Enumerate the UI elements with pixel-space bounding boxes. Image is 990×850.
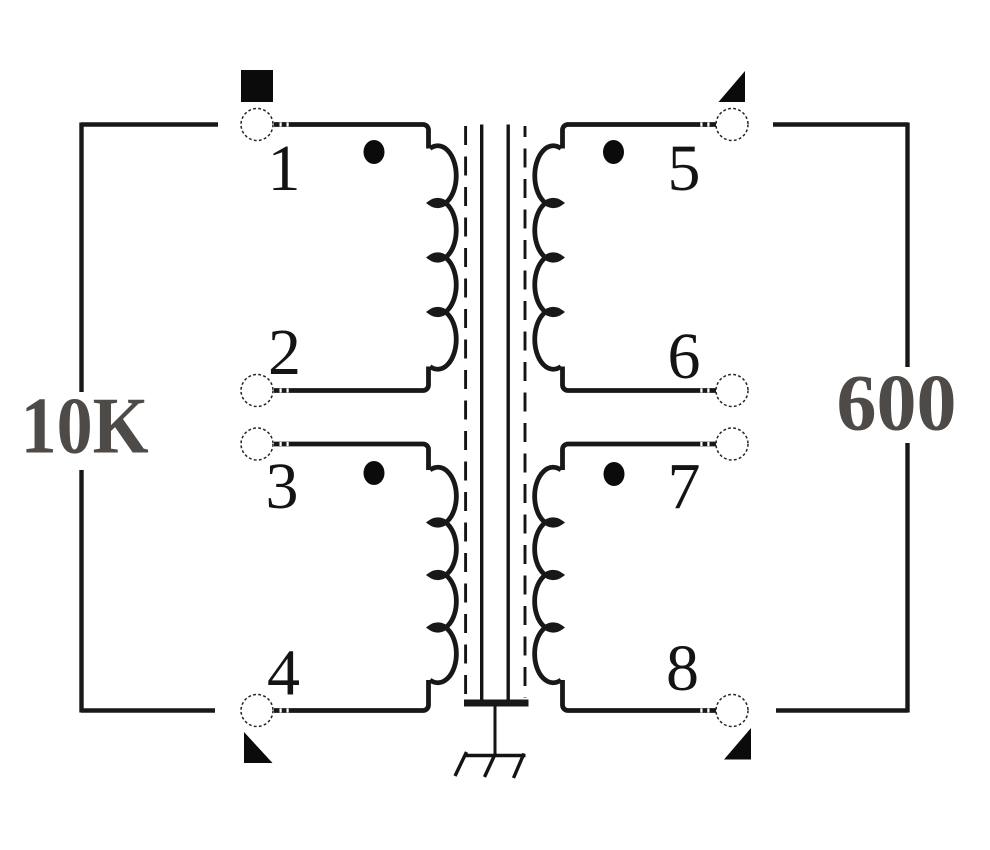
svg-text:1: 1 xyxy=(268,132,301,205)
marker triangle at pin 4 xyxy=(244,732,273,763)
phase dot winding P3-P4 xyxy=(364,461,385,485)
pin 5 terminal circle xyxy=(716,109,748,141)
svg-text:8: 8 xyxy=(666,632,699,705)
wire: right loop vertical upper segment xyxy=(905,123,909,368)
ground hatch stroke 1 xyxy=(455,752,467,776)
phase dot winding P5-P6 xyxy=(603,140,624,164)
ground bar xyxy=(465,754,526,757)
phase dot winding P1-P2 xyxy=(364,140,385,164)
svg-text:600: 600 xyxy=(837,360,957,448)
svg-text:10K: 10K xyxy=(21,382,149,470)
svg-text:6: 6 xyxy=(668,320,701,393)
marker square at pin 1 xyxy=(241,70,273,102)
wire break ticks at pin 4 xyxy=(280,708,282,712)
pin 4 terminal circle xyxy=(241,695,273,727)
svg-text:3: 3 xyxy=(266,450,299,523)
wire: right loop top horizontal xyxy=(773,122,908,127)
winding P3-P4 (primary B) xyxy=(274,444,456,711)
pin 8 terminal circle xyxy=(716,695,748,727)
wire break ticks at pin 1 xyxy=(280,122,282,126)
wire break ticks at pin 8 xyxy=(707,708,709,712)
wire break ticks at pin 7 xyxy=(707,442,709,446)
wire break ticks at pin 5 xyxy=(707,122,709,126)
wire: left loop bottom horizontal xyxy=(81,708,215,713)
core solid line left xyxy=(480,125,483,702)
wire: left loop vertical upper segment xyxy=(79,123,83,393)
pin 3 terminal circle xyxy=(241,428,273,460)
wire: right loop bottom horizontal xyxy=(776,708,908,713)
svg-text:5: 5 xyxy=(668,132,701,205)
svg-text:7: 7 xyxy=(668,450,701,523)
wire break ticks at pin 2 xyxy=(280,388,282,392)
wire: right loop vertical lower segment xyxy=(905,443,909,713)
wire: left loop top horizontal xyxy=(81,122,218,127)
svg-text:2: 2 xyxy=(268,316,301,389)
wire break ticks at pin 3 xyxy=(280,442,282,446)
core bottom bar xyxy=(464,700,529,707)
ground stem xyxy=(494,706,497,755)
coil cusp blobs winding P1-P2 xyxy=(434,199,443,208)
svg-text:4: 4 xyxy=(267,637,300,710)
winding P1-P2 (primary A) xyxy=(274,125,456,391)
marker triangle at pin 5 xyxy=(719,71,746,102)
winding P7-P8 (secondary B) xyxy=(535,444,717,711)
wire: left loop vertical lower segment xyxy=(79,470,83,713)
ground hatch stroke 3 xyxy=(514,754,525,779)
coil cusp blobs winding P3-P4 xyxy=(434,518,443,527)
pin 6 terminal circle xyxy=(716,375,748,407)
core shield dashed line right xyxy=(524,126,527,698)
pin 2 terminal circle xyxy=(241,375,273,407)
marker triangle at pin 8 xyxy=(724,728,751,760)
winding P5-P6 (secondary A) xyxy=(535,125,716,391)
coil cusp blobs winding P5-P6 xyxy=(548,199,557,208)
coil cusp blobs winding P7-P8 xyxy=(548,518,557,527)
core shield dashed line left xyxy=(464,126,467,698)
core solid line right xyxy=(507,125,510,702)
phase dot winding P7-P8 xyxy=(604,462,625,486)
ground hatch stroke 2 xyxy=(485,753,496,777)
wire break ticks at pin 6 xyxy=(707,388,709,392)
pin 1 terminal circle xyxy=(241,109,273,141)
pin 7 terminal circle xyxy=(716,428,748,460)
